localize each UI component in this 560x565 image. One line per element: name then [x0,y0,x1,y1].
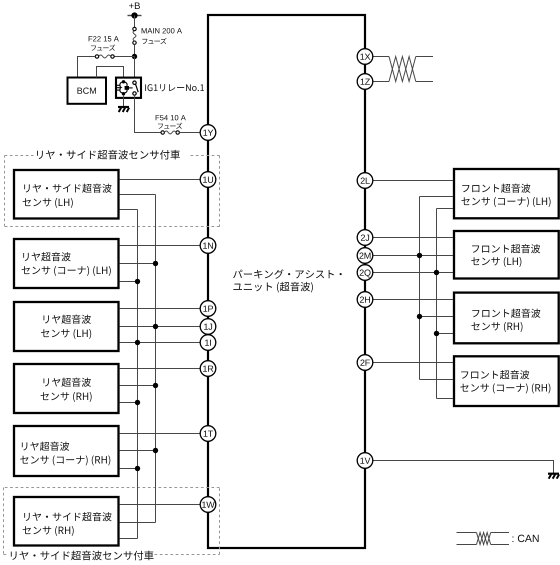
node 2F [357,355,373,371]
junction bus D / node 2Q wire [434,270,439,275]
wire corner RH pin2 to bus B [120,450,156,452]
wire corner LH pin3 to bus A [120,281,138,283]
wire node 2Q to front LH pin3 [373,272,453,274]
wire rear RH pin2 to bus B [120,385,156,387]
wire front RH pin3 to bus D [437,333,454,335]
wire junction to fuse F22 [114,56,134,58]
CAN twisted pair wires (1X/1Z) [373,57,433,82]
junction bus B / corner RH [153,448,158,453]
wire sensor LH-side pin1 to node 1U [120,179,201,181]
rear side ultrasonic sensor (LH) box [14,170,119,219]
rear side ultrasonic sensor (RH) box [14,497,119,546]
node 1J [200,319,216,335]
node 2H [357,292,373,308]
fuse F54 10 A [156,115,186,134]
wire rear-side RH pin2 to bus B (bottom bend) [120,522,156,524]
node 2L [357,173,373,189]
front ultrasonic sensor (corner) (RH) box [454,356,559,406]
rear ultrasonic sensor (corner) (RH) box [14,426,119,476]
wire F22 to BCM [78,57,96,78]
wire front RH pin2 to bus C [420,316,454,318]
wire corner RH pin3 to bus A [120,468,138,470]
junction bus B / corner LH [153,261,158,266]
dashed option frame: rear-side-sensor-equipped vehicles (top) [5,150,220,227]
wire F54 to node 1Y [179,132,200,134]
node 1V [357,453,373,469]
wire sensor LH-side pin2 to bus B [120,194,156,196]
ground (1V) [548,474,559,479]
wire node 2J to front LH pin1 [373,237,453,239]
node 2J [357,230,373,246]
node 2Q [357,265,373,281]
wire junction to relay switch [134,57,136,82]
dashed option frame: rear-side-sensor-equipped vehicles (bottom) [4,488,220,561]
relay IG1 No.1 [116,78,204,98]
bus B vertical (left) [155,195,157,523]
wire sensor LH-side pin3 to bus A [120,209,138,211]
junction node (+B feed) [132,54,137,59]
wire node 2F to front corner RH pin1 [373,362,453,364]
bus A vertical (left) [137,210,139,539]
fuse MAIN 200 A [133,27,182,44]
node 1T [200,426,216,442]
wire rear-side RH pin1 to node 1W [120,504,201,506]
wire node 2L to front corner LH pin1 [373,180,453,182]
node 1W [200,497,216,513]
wire +B to MAIN fuse [134,16,136,28]
node 1N [200,238,216,254]
wire rear RH pin1 to node 1R [120,368,201,370]
wire bus C bottom bend to front corner RH pin2 [420,379,454,381]
junction bus A / node 1I wire [135,340,140,345]
junction bus A / corner RH [135,466,140,471]
node 1X [357,49,373,65]
node 1U [200,172,216,188]
bus C vertical (right) [419,197,421,380]
wire corner LH pin2 to bus B [120,263,156,265]
ground (relay coil) [118,95,129,112]
wire rear LH pin2 to node 1J [120,326,201,328]
front ultrasonic sensor (LH) box [454,231,559,279]
wire rear RH pin3 to bus A [120,402,138,404]
junction bus B / rear RH [153,383,158,388]
legend label : CAN [512,535,538,542]
wire BCM to relay coil [97,67,124,81]
node 1R [200,361,216,377]
wire front corner LH pin3 to bus D [437,208,454,210]
BCM box [68,78,107,104]
wire rear-side RH pin3 to bus A (bottom bend) [120,538,138,540]
node 1Z [357,74,373,90]
junction bus D / front RH [434,331,439,336]
junction bus A / rear RH [135,400,140,405]
bus D vertical (right) [436,209,438,399]
node 2M [357,248,373,264]
wire node 1V to ground [373,461,554,474]
junction bus C / front RH [417,314,422,319]
junction bus B / node 1J wire [153,324,158,329]
rear ultrasonic sensor (LH) box [14,302,119,351]
battery feed +B terminal [128,2,142,18]
wire relay switch to fuse F54 [135,95,161,132]
wire MAIN fuse to junction [134,44,136,56]
node 1Y [200,125,216,141]
front ultrasonic sensor (RH) box [454,293,559,344]
wire bus D bottom bend to front corner RH pin3 [437,398,454,400]
parking assist unit (ultrasonic) box [208,15,365,548]
front ultrasonic sensor (corner) (LH) box [454,169,559,218]
wire corner LH pin1 to node 1N [120,245,201,247]
junction bus C / node 2M wire [417,253,422,258]
node 1I [200,335,216,351]
rear ultrasonic sensor (RH) box [14,364,119,413]
node 1P [200,301,216,317]
rear ultrasonic sensor (corner) (LH) box [14,239,119,288]
wire rear LH pin3 to node 1I [120,342,201,344]
wire corner RH pin1 to node 1T [120,433,201,435]
wire node 2H to front RH pin1 [373,299,453,301]
junction bus A / corner LH [135,279,140,284]
legend: CAN twisted pair symbol [457,533,510,545]
wire node 2M to front LH pin2 [373,255,453,257]
fuse F22 15 A [89,36,119,58]
wire rear LH pin1 to node 1P [120,308,201,310]
wire front corner LH pin2 to bus C [420,196,454,198]
